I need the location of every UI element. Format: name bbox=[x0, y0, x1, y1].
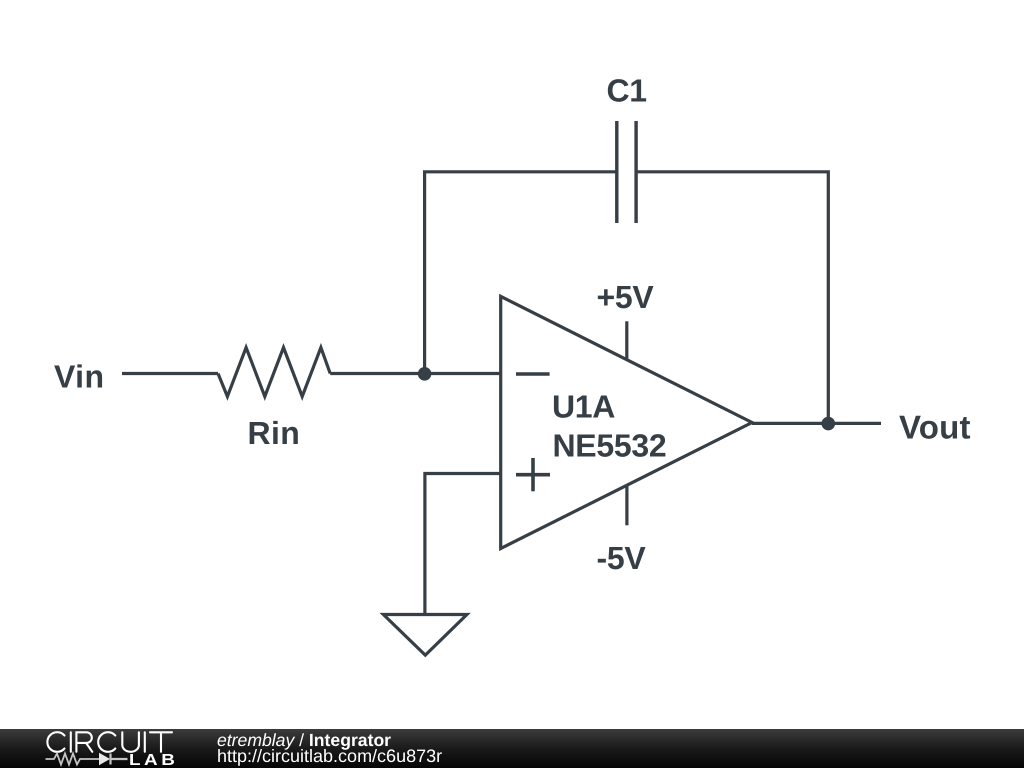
wire output bbox=[752, 422, 881, 425]
node output junction dot bbox=[822, 417, 836, 431]
op-amp inverting - marker bbox=[516, 372, 550, 376]
wire feedback right branch bbox=[636, 172, 828, 424]
svg-text:http://circuitlab.com/c6u873r: http://circuitlab.com/c6u873r bbox=[217, 746, 442, 766]
logo resistor-diode art bbox=[46, 754, 128, 765]
wire Vin lead bbox=[122, 372, 218, 375]
svg-text:Rin: Rin bbox=[248, 415, 301, 451]
wire resistor to op-amp inverting input bbox=[330, 372, 501, 375]
logo LAB word bbox=[129, 752, 178, 768]
ground symbol bbox=[383, 615, 467, 656]
svg-text:NE5532: NE5532 bbox=[553, 428, 667, 464]
svg-text:-5V: -5V bbox=[597, 540, 647, 576]
svg-text:Vout: Vout bbox=[899, 409, 971, 446]
svg-text:U1A: U1A bbox=[552, 389, 615, 425]
op-amp non-inverting + marker bbox=[516, 458, 550, 491]
svg-text:Vin: Vin bbox=[54, 359, 104, 395]
svg-text:C1: C1 bbox=[607, 73, 647, 109]
svg-text:+5V: +5V bbox=[597, 279, 655, 315]
op-amp U1A triangle bbox=[501, 296, 752, 548]
resistor Rin bbox=[218, 348, 330, 397]
svg-text:LAB: LAB bbox=[129, 752, 178, 768]
power pin -5V stub bbox=[625, 486, 628, 525]
node A junction dot bbox=[418, 367, 432, 381]
capacitor C1 bbox=[617, 121, 636, 223]
logo CIRCUIT word bbox=[47, 732, 172, 752]
footer bar bbox=[0, 729, 1024, 768]
wire non-inverting input to ground bbox=[425, 474, 501, 615]
logo diode triangle bbox=[99, 753, 110, 765]
wire feedback left branch bbox=[425, 172, 617, 374]
power pin +5V stub bbox=[625, 321, 628, 359]
